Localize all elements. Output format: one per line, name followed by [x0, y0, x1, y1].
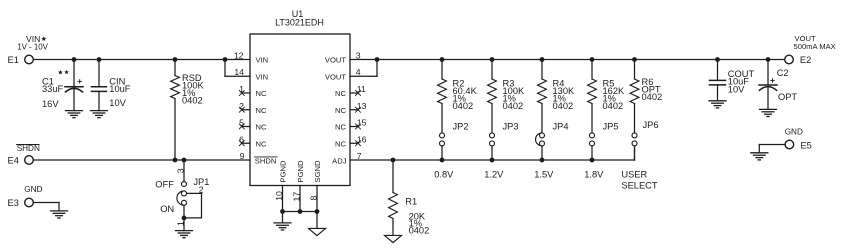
jumper JP3 [490, 133, 495, 138]
ground under CIN [91, 110, 108, 112]
wire ADJ bus [350, 159, 635, 161]
svg-text:OPT: OPT [778, 92, 797, 102]
pin 16 NC [350, 142, 359, 144]
svg-text:ON: ON [160, 204, 174, 214]
svg-text:JP2: JP2 [453, 122, 469, 132]
resistor R1 20K 1% 0402 [391, 158, 396, 163]
jumper JP2 [440, 133, 445, 138]
junction pin10 [280, 209, 285, 214]
svg-text:C2: C2 [777, 68, 789, 78]
svg-text:LT3021EDH: LT3021EDH [275, 18, 324, 28]
svg-text:3: 3 [175, 168, 185, 173]
svg-text:16V: 16V [42, 99, 59, 109]
svg-text:USER: USER [621, 170, 647, 180]
ground under COUT [709, 100, 726, 102]
junction RSD/VIN [173, 57, 178, 62]
svg-text:1V - 10V: 1V - 10V [17, 42, 48, 51]
svg-text:500mA MAX: 500mA MAX [794, 42, 836, 51]
pin 1 NC [242, 92, 251, 94]
svg-text:NC: NC [335, 123, 346, 132]
svg-text:33uF: 33uF [42, 84, 64, 94]
svg-text:SHDN: SHDN [255, 156, 277, 165]
svg-text:VIN: VIN [256, 72, 269, 81]
svg-text:0402: 0402 [182, 96, 203, 106]
ground under C1 [66, 110, 83, 112]
svg-text:0402: 0402 [553, 101, 574, 111]
svg-text:E4: E4 [8, 156, 19, 166]
svg-text:10V: 10V [728, 84, 745, 94]
svg-text:0402: 0402 [642, 92, 663, 102]
svg-text:17: 17 [291, 192, 301, 202]
svg-text:NC: NC [256, 139, 267, 148]
wire E5 to ground [759, 144, 785, 146]
resistor RSD 100K 1% 0402 [174, 60, 176, 76]
resistor R5 162K 0402 [590, 57, 595, 62]
svg-text:ADJ: ADJ [332, 156, 347, 165]
svg-text:OFF: OFF [155, 180, 174, 190]
svg-text:E3: E3 [8, 198, 19, 208]
junction JP4/ADJ [540, 158, 545, 163]
terminal E5 [785, 140, 794, 149]
jumper JP5 [590, 133, 595, 138]
svg-text:R1: R1 [405, 196, 417, 206]
svg-text:SHDN: SHDN [17, 144, 40, 153]
svg-text:SELECT: SELECT [621, 181, 657, 191]
resistor R2 60.4K 0402 [440, 57, 445, 62]
junction C1/VIN [72, 57, 77, 62]
svg-text:NC: NC [256, 106, 267, 115]
pin 14 VIN [224, 60, 226, 77]
pin 5 NC [242, 126, 251, 128]
ground at E3 [51, 210, 68, 212]
svg-text:NC: NC [256, 123, 267, 132]
svg-text:E2: E2 [800, 55, 811, 65]
svg-text:10: 10 [274, 191, 284, 201]
terminal E4 [25, 156, 34, 165]
jumper JP1 [183, 160, 185, 182]
svg-text:1.8V: 1.8V [584, 170, 604, 180]
svg-text:GND: GND [785, 128, 803, 137]
svg-text:GND: GND [24, 185, 42, 194]
ground at E5 [751, 152, 768, 154]
junction JP3/ADJ [490, 158, 495, 163]
wire VIN rail [34, 59, 250, 61]
svg-text:PGND: PGND [296, 160, 305, 182]
svg-text:13: 13 [357, 101, 367, 111]
svg-text:0.8V: 0.8V [434, 170, 454, 180]
pin 15 NC [350, 126, 359, 128]
terminal E1 [25, 55, 34, 64]
svg-text:NC: NC [335, 89, 346, 98]
junction pin8 [315, 209, 320, 214]
svg-text:10uF: 10uF [109, 84, 131, 94]
svg-text:0402: 0402 [603, 101, 624, 111]
ground under JP1 [183, 218, 185, 231]
jumper JP4 [536, 133, 542, 146]
svg-text:NC: NC [335, 106, 346, 115]
resistor R4 130K 0402 [540, 57, 545, 62]
resistor R6 OPT 0402 [632, 57, 637, 62]
svg-text:6: 6 [239, 134, 244, 144]
wire E3 to ground [33, 202, 59, 204]
svg-text:16: 16 [357, 134, 367, 144]
svg-text:2: 2 [199, 184, 204, 194]
svg-text:1.5V: 1.5V [534, 170, 554, 180]
svg-text:8: 8 [308, 196, 318, 201]
svg-text:4: 4 [356, 67, 361, 77]
capacitor C1 33uF 16V [73, 60, 75, 87]
svg-text:12: 12 [234, 50, 244, 60]
pin 6 NC [242, 142, 251, 144]
ground under pin10 [282, 212, 284, 223]
svg-text:VOUT: VOUT [325, 56, 346, 65]
junction CIN/VIN [97, 57, 102, 62]
svg-text:JP4: JP4 [553, 122, 569, 132]
svg-text:NC: NC [256, 89, 267, 98]
resistor R3 100K 0402 [490, 57, 495, 62]
svg-text:E5: E5 [800, 140, 811, 150]
junction C2/VOUT [766, 57, 771, 62]
svg-text:0402: 0402 [503, 101, 524, 111]
capacitor COUT 10uF 10V [717, 60, 719, 81]
junction pin17 [298, 209, 303, 214]
svg-text:1.2V: 1.2V [484, 170, 504, 180]
svg-text:PGND: PGND [278, 160, 287, 182]
svg-text:11: 11 [357, 84, 366, 94]
svg-text:0402: 0402 [453, 101, 474, 111]
wire SHDN net [34, 159, 250, 161]
terminal E3 [25, 198, 34, 207]
pin 2 NC [242, 109, 251, 111]
pin 4 VOUT [350, 75, 377, 77]
junction pin14 feed [223, 57, 228, 62]
svg-text:VIN: VIN [256, 56, 269, 65]
svg-text:1: 1 [239, 84, 244, 94]
analog ground under pin8 [316, 212, 318, 229]
note ** [58, 70, 63, 74]
junction JP2/ADJ [440, 158, 445, 163]
junction JP1/SHDN [182, 158, 187, 163]
pin 11 NC [350, 92, 359, 94]
wire VOUT rail [350, 59, 785, 61]
pin 13 NC [350, 109, 359, 111]
junction COUT/VOUT [715, 57, 720, 62]
capacitor C2 OPT [767, 60, 769, 86]
junction pin4 feed [375, 57, 380, 62]
svg-text:JP5: JP5 [603, 122, 619, 132]
junction RSD/SHDN [173, 158, 178, 163]
terminal E2 [785, 55, 794, 64]
junction JP5/ADJ [590, 158, 595, 163]
jumper JP6 [632, 133, 637, 138]
svg-text:NC: NC [335, 139, 346, 148]
svg-text:0402: 0402 [409, 225, 430, 235]
capacitor CIN 10uF 10V [98, 60, 100, 87]
svg-text:SGND: SGND [313, 160, 322, 182]
svg-text:15: 15 [357, 118, 367, 128]
svg-text:10V: 10V [109, 98, 126, 108]
svg-text:JP6: JP6 [643, 120, 659, 130]
wire ground bus under U1 [283, 211, 318, 213]
analog ground under R1 [385, 235, 402, 242]
svg-text:E1: E1 [8, 55, 19, 65]
ground under C2 [760, 108, 777, 110]
svg-text:5: 5 [239, 118, 244, 128]
svg-text:JP3: JP3 [503, 122, 519, 132]
op-amp U1 LT3021EDH body [250, 34, 350, 186]
svg-text:VOUT: VOUT [325, 72, 346, 81]
svg-text:2: 2 [239, 101, 244, 111]
svg-text:14: 14 [234, 67, 244, 77]
